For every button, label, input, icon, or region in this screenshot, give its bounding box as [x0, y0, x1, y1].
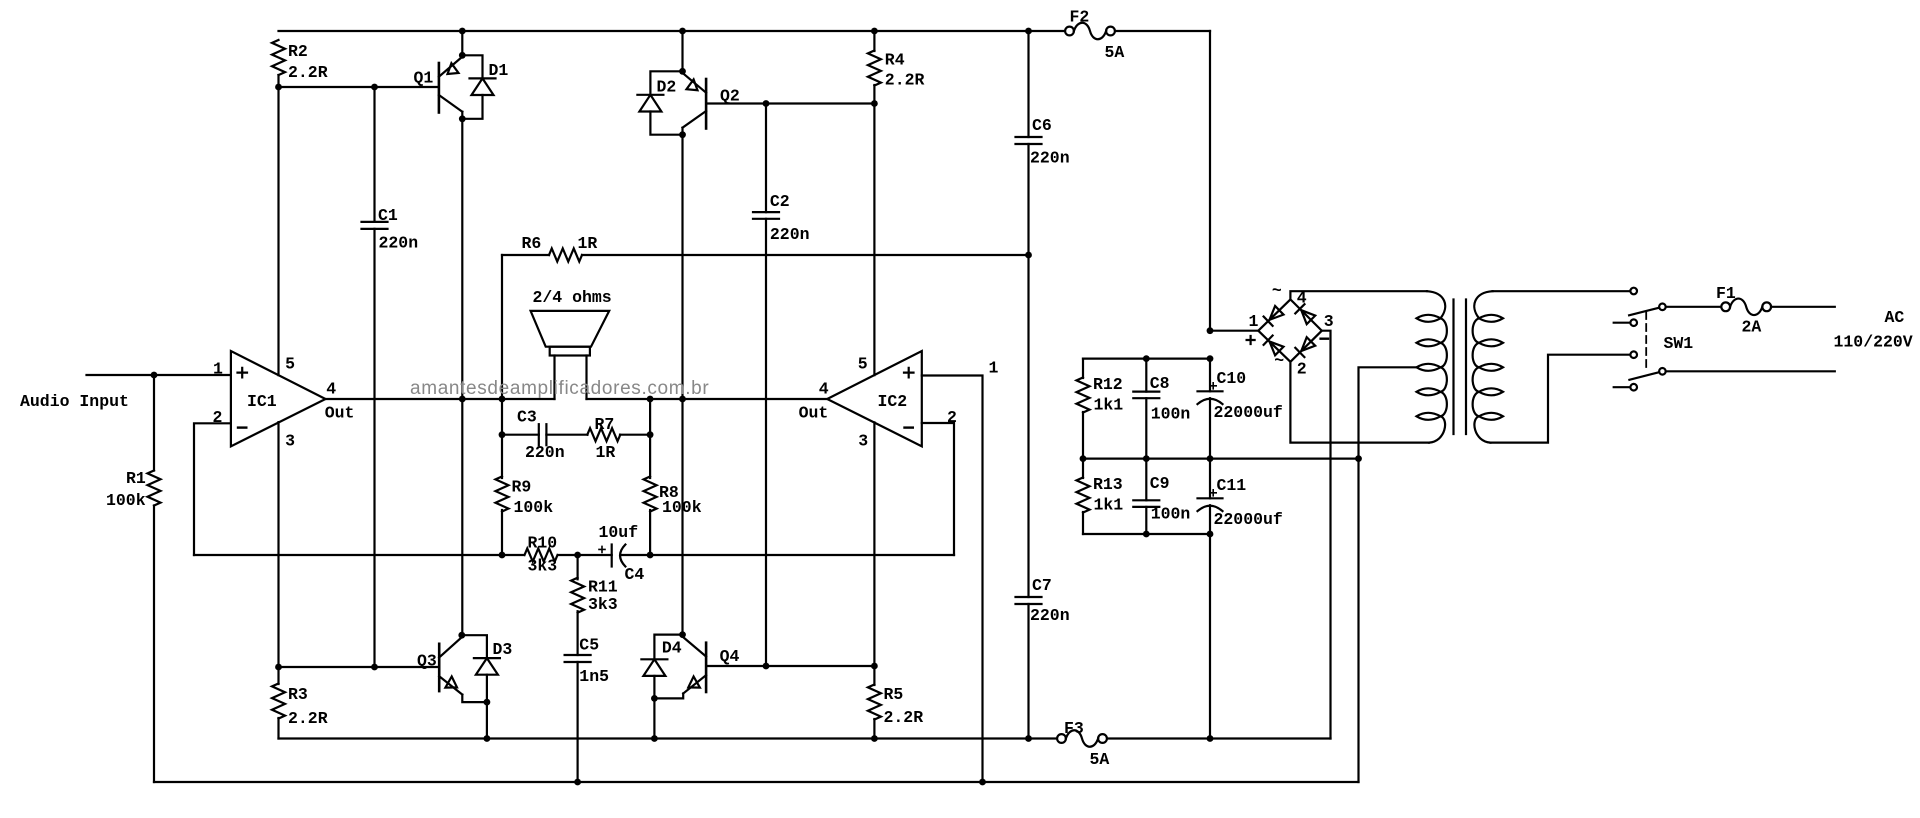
switch SW1 link dashed: [1645, 312, 1647, 372]
speaker 2/4 ohms: [531, 311, 610, 399]
wire out rail to Q4 node: [681, 399, 683, 635]
op-amp IC2: [827, 351, 922, 446]
svg-text:R4: R4: [885, 51, 905, 70]
resistor R6: [502, 249, 1029, 262]
svg-text:2/4 ohms: 2/4 ohms: [533, 288, 612, 307]
wire IC1 pin 5 supply stub: [277, 87, 279, 375]
wire primary bottom riser: [1491, 355, 1631, 443]
wire Q2 emitter column to out rail: [681, 135, 683, 399]
capacitor C11: [1198, 459, 1223, 739]
resistor R8: [644, 435, 657, 555]
junction C8C9/mid rail: [1143, 455, 1150, 462]
transistor Q2: [683, 71, 707, 134]
svg-text:R2: R2: [288, 42, 308, 61]
node Q3 top: [458, 632, 465, 639]
wire top rail corner to bridge: [1209, 31, 1211, 331]
junction C6/top rail: [1025, 28, 1032, 35]
capacitor C10: [1198, 359, 1223, 459]
svg-text:2.2R: 2.2R: [885, 71, 925, 90]
wire top rail to Q2 node: [681, 31, 683, 71]
wire bridge pin 4 to transformer: [1290, 291, 1427, 299]
wire filter mid rail: [1083, 458, 1359, 460]
transistor Q3: [439, 635, 487, 702]
diode D2: [637, 71, 682, 134]
svg-text:1: 1: [1249, 312, 1259, 331]
svg-text:4: 4: [326, 380, 336, 399]
svg-text:C10: C10: [1217, 369, 1247, 388]
svg-text:F2: F2: [1070, 8, 1090, 27]
svg-text:D2: D2: [657, 78, 677, 97]
svg-text:2: 2: [947, 408, 957, 427]
svg-text:220n: 220n: [525, 443, 565, 462]
label C10 plus: [1210, 383, 1216, 389]
fuse F1: [1716, 284, 1771, 337]
junction C1 bottom: [371, 664, 378, 671]
svg-text:220n: 220n: [1030, 149, 1070, 168]
junction R6R9 column/out: [499, 396, 506, 403]
svg-text:R12: R12: [1093, 375, 1123, 394]
svg-text:Q1: Q1: [414, 69, 434, 88]
svg-text:100k: 100k: [106, 491, 146, 510]
svg-text:C2: C2: [770, 192, 790, 211]
svg-text:10uf: 10uf: [599, 523, 639, 542]
svg-text:1n5: 1n5: [579, 667, 609, 686]
junction R12R13/mid rail: [1080, 455, 1087, 462]
svg-text:5: 5: [858, 355, 868, 374]
junction R8/feedback: [647, 552, 654, 559]
svg-text:220n: 220n: [379, 234, 419, 253]
svg-text:2A: 2A: [1742, 318, 1762, 337]
capacitor C6: [1016, 31, 1042, 255]
junction Q2Q4 column/out: [679, 396, 686, 403]
IC1 minus input sign: [238, 426, 246, 428]
wire primary top to SW1: [1493, 290, 1631, 292]
junction C2 bottom: [763, 663, 770, 670]
junction C10C11/mid rail: [1207, 455, 1214, 462]
svg-text:C9: C9: [1150, 474, 1170, 493]
op-amp IC1: [231, 351, 326, 446]
label bridge plus: [1247, 336, 1255, 344]
svg-text:R6: R6: [522, 234, 542, 253]
svg-text:1k1: 1k1: [1094, 496, 1124, 515]
svg-text:22000uf: 22000uf: [1214, 403, 1283, 422]
capacitor C3: [502, 424, 588, 445]
junction Q3 column/-V rail: [484, 735, 491, 742]
wire IC1 pin 2 feedback riser: [194, 423, 231, 555]
wire Q4 bottom to -V rail: [653, 698, 655, 738]
wire ground bottom rail: [154, 781, 1359, 783]
svg-text:IC1: IC1: [247, 392, 277, 411]
capacitor C5: [565, 655, 591, 782]
svg-text:R13: R13: [1093, 475, 1123, 494]
diode D1: [462, 55, 495, 119]
node Q4/D4 bottom: [651, 695, 658, 702]
resistor R3: [272, 667, 285, 739]
junction R4 bottom/base wire: [871, 100, 878, 107]
capacitor C4 polarized: [612, 545, 626, 567]
svg-text:1R: 1R: [578, 234, 598, 253]
wire bridge plus: [1210, 330, 1258, 332]
svg-text:~: ~: [1272, 281, 1282, 300]
transistor Q4: [654, 635, 706, 699]
junction Q2 column/top rail: [679, 28, 686, 35]
diode D3: [462, 635, 500, 702]
wire bridge pin 2 to transformer: [1290, 362, 1429, 443]
junction R2/base wire: [275, 84, 282, 91]
node Q2 top: [679, 68, 686, 75]
svg-text:C3: C3: [517, 408, 537, 427]
wire F1 to AC: [1771, 306, 1835, 308]
junction R5 top: [871, 663, 878, 670]
resistor R10: [525, 549, 558, 562]
junction Q4 column/-V rail: [651, 735, 658, 742]
node Q1 bottom: [459, 115, 466, 122]
svg-text:Audio Input: Audio Input: [20, 392, 129, 411]
junction C1 top: [371, 84, 378, 91]
svg-text:C4: C4: [625, 565, 645, 584]
switch SW1 pole A contact 1: [1630, 288, 1637, 295]
transformer secondary winding: [1417, 291, 1447, 442]
svg-text:2.2R: 2.2R: [288, 63, 328, 82]
svg-text:2.2R: 2.2R: [884, 708, 924, 727]
bridge rectifier: [1258, 299, 1322, 361]
svg-text:C11: C11: [1217, 476, 1247, 495]
capacitor C2: [753, 104, 779, 667]
label C11 plus: [1210, 490, 1216, 496]
junction bridge plus/C10 column: [1207, 327, 1214, 334]
resistor R12: [1077, 359, 1090, 459]
svg-text:1: 1: [213, 360, 223, 379]
wire out rail IC1: [326, 398, 555, 400]
svg-text:amantesdeamplificadores.com.br: amantesdeamplificadores.com.br: [410, 378, 709, 399]
wire top rail to Q1 node: [461, 31, 463, 55]
junction R4/top rail: [871, 28, 878, 35]
wire filter bottom rail: [1083, 533, 1210, 535]
svg-text:3: 3: [285, 432, 295, 451]
svg-text:D1: D1: [489, 61, 509, 80]
wire IC2 pin 1 to ground: [922, 376, 983, 783]
wire Q3 bottom to -V rail: [486, 702, 488, 738]
wire IC2 pin 3 supply stub: [873, 422, 875, 666]
svg-text:5A: 5A: [1090, 750, 1110, 769]
svg-text:R1: R1: [126, 469, 146, 488]
wire Q1 emitter column to out rail: [461, 119, 463, 399]
transformer primary winding: [1473, 291, 1503, 442]
wire SW1 to F1: [1666, 306, 1722, 308]
svg-text:3k3: 3k3: [588, 595, 618, 614]
svg-text:F1: F1: [1716, 284, 1736, 303]
svg-text:220n: 220n: [1030, 606, 1070, 625]
wire SW1 to AC bottom: [1666, 370, 1835, 372]
svg-text:100n: 100n: [1151, 505, 1191, 524]
wire centre tap: [1359, 367, 1418, 782]
wire bridge pin 3 to -V: [1322, 331, 1331, 739]
junction R9/feedback: [499, 552, 506, 559]
junction R11/feedback: [574, 552, 581, 559]
IC2 minus input sign: [905, 426, 913, 428]
svg-text:D4: D4: [662, 639, 682, 658]
node Q2 bottom: [679, 131, 686, 138]
svg-text:R10: R10: [528, 534, 558, 553]
svg-text:C8: C8: [1150, 374, 1170, 393]
wire Q1 base: [279, 86, 439, 88]
resistor R11: [571, 555, 584, 655]
transformer core: [1454, 300, 1467, 435]
IC1 plus input sign: [238, 368, 248, 378]
capacitor C1: [362, 87, 388, 667]
svg-text:5A: 5A: [1105, 43, 1125, 62]
switch SW1 pole A contact 2: [1614, 319, 1637, 326]
svg-text:110/220V: 110/220V: [1834, 333, 1913, 352]
wire IC1 pin 3 supply stub: [277, 422, 279, 667]
svg-text:1R: 1R: [596, 443, 616, 462]
junction C5/ground: [574, 779, 581, 786]
capacitor C7: [1016, 255, 1042, 738]
svg-text:Out: Out: [799, 404, 829, 423]
junction C7/-V rail: [1025, 735, 1032, 742]
junction C3 left: [499, 431, 506, 438]
wire audio input to IC1 pin 1: [87, 374, 231, 376]
wire feedback rail left: [194, 554, 524, 556]
wire out to R8: [649, 399, 651, 435]
junction centre tap/mid rail: [1355, 455, 1362, 462]
svg-text:2: 2: [1297, 360, 1307, 379]
svg-text:C1: C1: [378, 206, 398, 225]
junction Q1 column/top rail: [459, 28, 466, 35]
resistor R9: [496, 435, 509, 555]
fuse F3: [1057, 719, 1109, 769]
svg-text:100k: 100k: [514, 498, 554, 517]
wire R10 to C4 node: [558, 554, 612, 556]
junction R5/-V rail: [871, 735, 878, 742]
wire filter top rail: [1083, 358, 1210, 360]
wire Q4 base: [706, 665, 874, 667]
wire IC2 pin 5 supply stub: [873, 104, 875, 376]
switch SW1 pole B blade: [1629, 372, 1659, 380]
node Q1 top: [459, 52, 466, 59]
wire -V rail: [279, 737, 1331, 739]
node Q3/D3 bottom: [484, 699, 491, 706]
junction C10C11 column/-V rail: [1207, 735, 1214, 742]
wire Q3 base: [279, 666, 440, 668]
resistor R2: [272, 40, 285, 87]
svg-text:22000uf: 22000uf: [1214, 510, 1283, 529]
wire IC2 pin 2 riser: [922, 423, 954, 555]
svg-text:~: ~: [1274, 351, 1284, 370]
svg-text:3: 3: [858, 432, 868, 451]
wire out rail IC2: [587, 398, 828, 400]
svg-text:R9: R9: [512, 478, 532, 497]
svg-text:3: 3: [1324, 312, 1334, 331]
node Q4 top: [679, 631, 686, 638]
svg-text:R7: R7: [595, 415, 615, 434]
svg-text:Q2: Q2: [720, 87, 740, 106]
svg-text:D3: D3: [493, 640, 513, 659]
svg-text:100n: 100n: [1151, 405, 1191, 424]
wire Q2 base: [706, 102, 874, 104]
junction Q1Q3 column/out: [459, 396, 466, 403]
svg-text:AC: AC: [1885, 308, 1905, 327]
transistor Q1: [439, 55, 462, 119]
svg-text:5: 5: [285, 355, 295, 374]
svg-text:R3: R3: [288, 685, 308, 704]
junction C11 bottom: [1207, 531, 1214, 538]
wire C4 to IC2 pin2 rail: [621, 554, 955, 556]
switch SW1 pole A blade: [1629, 308, 1659, 316]
svg-text:Q3: Q3: [417, 652, 437, 671]
switch SW1 pole B contact 1: [1630, 351, 1637, 358]
label C4 plus: [599, 546, 605, 552]
svg-text:3k3: 3k3: [528, 557, 558, 576]
svg-text:F3: F3: [1064, 719, 1084, 738]
wire out rail to Q3 node: [461, 399, 463, 635]
resistor R5: [868, 666, 881, 739]
svg-text:IC2: IC2: [878, 392, 908, 411]
svg-text:4: 4: [819, 380, 829, 399]
svg-text:C5: C5: [579, 636, 599, 655]
resistor R4: [868, 31, 881, 104]
svg-text:SW1: SW1: [1664, 334, 1694, 353]
junction C2 top: [763, 100, 770, 107]
junction IC2 pin1/ground: [979, 779, 986, 786]
junction R6/C6C7 column: [1025, 252, 1032, 259]
svg-text:R11: R11: [588, 578, 618, 597]
svg-text:C7: C7: [1032, 576, 1052, 595]
junction C10 top: [1207, 355, 1214, 362]
junction R7R8 column/out: [647, 396, 654, 403]
resistor R7: [587, 428, 650, 441]
svg-text:2.2R: 2.2R: [288, 709, 328, 728]
label bridge minus: [1321, 338, 1328, 340]
IC2 plus input sign: [904, 368, 914, 378]
junction C3 row right: [647, 431, 654, 438]
capacitor C8: [1133, 359, 1159, 459]
wire R6 riser from out rail: [501, 255, 503, 399]
switch SW1 pole A common: [1659, 304, 1666, 311]
junction C9 bottom: [1143, 531, 1150, 538]
switch SW1 pole B common: [1659, 368, 1666, 375]
diode D4: [641, 635, 682, 699]
svg-text:Q4: Q4: [720, 647, 740, 666]
resistor R13: [1077, 459, 1090, 534]
node audio input / R1: [151, 372, 158, 379]
svg-text:R5: R5: [884, 685, 904, 704]
svg-text:C6: C6: [1032, 116, 1052, 135]
svg-text:220n: 220n: [770, 225, 810, 244]
svg-text:1: 1: [989, 359, 999, 378]
svg-text:Out: Out: [325, 404, 355, 423]
wire top supply rail: [279, 30, 1211, 32]
wire out to C3 row: [501, 399, 503, 435]
switch SW1 pole B contact 2: [1614, 384, 1637, 391]
capacitor C9: [1133, 459, 1159, 534]
junction C8 top: [1143, 355, 1150, 362]
junction R3 top: [275, 664, 282, 671]
resistor R1: [148, 375, 161, 782]
fuse F2: [1065, 8, 1124, 63]
svg-text:1k1: 1k1: [1094, 396, 1124, 415]
